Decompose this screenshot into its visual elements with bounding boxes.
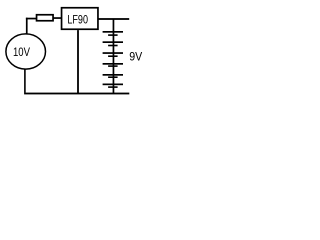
battery BT1 long plate 4 <box>103 63 123 65</box>
battery BT1 short plate 2 <box>108 45 118 47</box>
battery BT1 long plate 5 <box>103 74 123 76</box>
wire: source bottom vertical <box>24 69 26 93</box>
battery BT1 long plate 2 <box>103 41 123 43</box>
svg-text:10V: 10V <box>13 45 30 59</box>
battery BT1 long plate 1 <box>103 31 123 33</box>
svg-text:9V: 9V <box>129 50 142 64</box>
battery BT1 long plate 6 <box>103 84 123 86</box>
battery BT1 center conductor <box>113 19 115 94</box>
wire: top-left horizontal to resistor <box>26 18 36 20</box>
op-amp U1 LF90 (box) <box>62 8 98 30</box>
wire: LF90 right to battery top rail <box>98 18 129 20</box>
wire: source top vertical <box>26 18 28 35</box>
svg-text:LF90: LF90 <box>67 13 88 27</box>
battery BT1 long plate 3 <box>103 52 123 54</box>
battery BT1 short plate 1 <box>108 34 118 36</box>
battery BT1 short plate 3 <box>108 55 118 57</box>
battery BT1 short plate 5 <box>108 76 118 78</box>
battery BT1 short plate 6 <box>108 86 118 88</box>
resistor R1 (box) <box>37 15 54 21</box>
battery BT1 short plate 4 <box>108 65 118 67</box>
voltage source V1 (circle) <box>6 34 46 69</box>
wire: LF90 bottom vertical <box>77 30 79 93</box>
wire: resistor to LF90 <box>54 17 62 19</box>
wire: bottom rail <box>24 93 129 95</box>
